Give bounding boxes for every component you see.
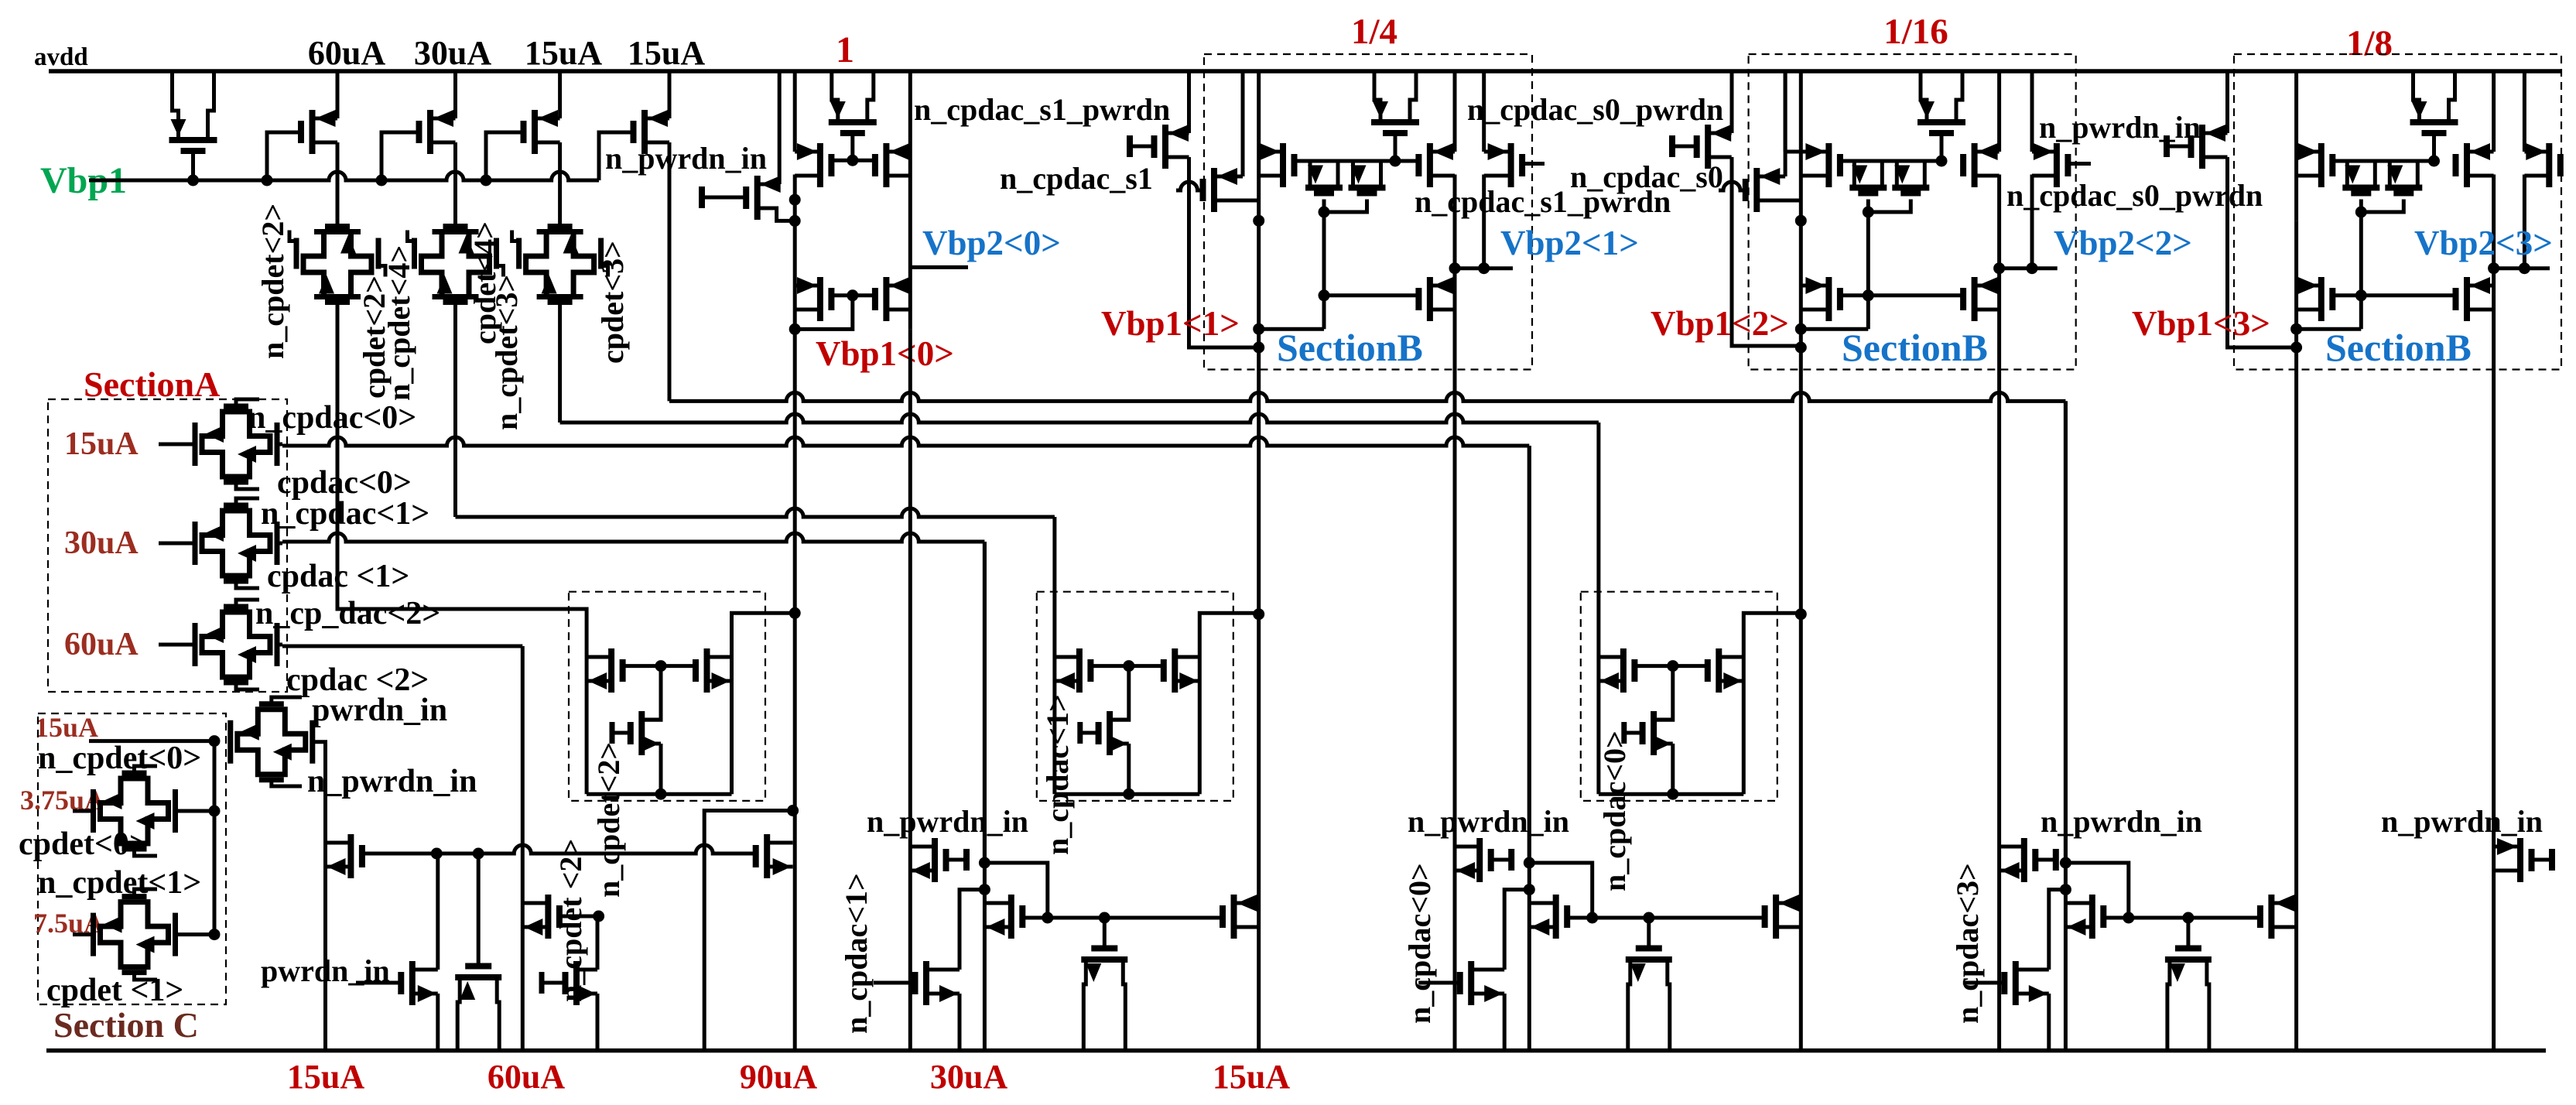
transistor 90uA P-right: [696, 648, 732, 693]
svg-text:avdd: avdd: [34, 43, 88, 71]
svg-text:Vbp1<3>: Vbp1<3>: [2132, 304, 2270, 343]
transistor pwrdn NMOS right: [2494, 838, 2552, 882]
transistor P_low 1/4: [1418, 277, 1455, 321]
junction lower gate 1/8: [2355, 289, 2367, 301]
wire s1 bottom out: [1214, 199, 1259, 203]
svg-text:n_cpdac<3>: n_cpdac<3>: [1950, 863, 1985, 1024]
wire rail drop 1/8 vb: [2294, 71, 2298, 221]
wire cpdac3 gate bus: [2129, 916, 2260, 920]
junction gate link sec1: [847, 155, 858, 166]
transistor n_cpdac_s0_pwrdn PMOS: [1672, 125, 1732, 169]
transistor pwrdn NMOS cpdac3: [2000, 838, 2056, 882]
transistor pwrdn NMOS cpdac0: [1455, 838, 1511, 882]
svg-text:Vbp1<0>: Vbp1<0>: [816, 334, 954, 373]
wire bus n_cpdac<0>: [282, 437, 1529, 446]
transistor M0 always-on PMOS: [169, 71, 217, 151]
transistor low NMOS cpdac0: [1460, 961, 1505, 1005]
wire pwrdn tgate out to 15uA branch: [313, 742, 326, 1051]
junction cpdac3 r1: [2060, 857, 2071, 869]
wire N2 drain: [436, 854, 440, 970]
junction 1/4 vb dot: [1253, 215, 1264, 227]
wire A3 to cp_dac<2>: [277, 643, 282, 647]
junction Vbp1 1/16 a: [1795, 323, 1807, 335]
svg-text:15uA: 15uA: [287, 1058, 364, 1096]
svg-text:n_cpdac_s1_pwrdn: n_cpdac_s1_pwrdn: [914, 92, 1170, 127]
wire A2 output: [277, 542, 282, 546]
transistor 90uA NMOS: [631, 711, 661, 755]
junction M7-M6 node: [789, 194, 801, 206]
wire rail drop 1027: [793, 71, 797, 152]
svg-text:15uA: 15uA: [64, 426, 139, 462]
wire 90uA branch upper: [793, 200, 797, 329]
wire bus cpdet<4> branch: [456, 508, 1055, 517]
wire twin gate down 1/4: [1322, 212, 1326, 329]
svg-text:60uA: 60uA: [64, 627, 139, 662]
wire Vbp2 stub 1/16: [2000, 266, 2058, 270]
wire gate row 1/8: [2332, 159, 2434, 163]
junction gate-Vbp1 M1: [262, 175, 273, 186]
transistor ratio twin2 1/4: [1349, 161, 1386, 193]
transistor ratio twin2 1/16: [1892, 161, 1929, 193]
svg-text:n_cpdac<0>: n_cpdac<0>: [1597, 730, 1632, 891]
transistor pwrdn NMOS 30uA: [910, 838, 966, 882]
transistor always-on 1/8: [2410, 71, 2458, 161]
svg-text:n_cpdac<1>: n_cpdac<1>: [1040, 694, 1075, 855]
wire 1/8 pwrdn drain: [2225, 71, 2229, 133]
wire s1pwrdn out: [1189, 157, 1259, 347]
wire 60uA source down: [336, 142, 340, 227]
wire 15uA-1 drain from rail: [558, 71, 562, 118]
wire Vbp1<0> branch upper: [908, 71, 912, 329]
transistor P_low 1/8: [2456, 277, 2494, 321]
transistor low NMOS cpdac3: [2004, 961, 2049, 1005]
wire Vbp1 rail: [89, 172, 599, 180]
tgate SectionA A3: [159, 600, 277, 689]
svg-text:n_cpdet<2>: n_cpdet<2>: [255, 204, 290, 359]
wire 1/8 pwrdn out: [2228, 157, 2297, 347]
ground return rail (bottom): [46, 1049, 2546, 1053]
svg-text:n_pwrdn_in: n_pwrdn_in: [605, 141, 767, 176]
tgate T1 cpdet<2>: [289, 227, 385, 303]
box SectionB 1/16: [1749, 54, 2076, 370]
svg-text:n_cpdac<0>: n_cpdac<0>: [1402, 863, 1437, 1024]
transistor N4 NMOS 60uA: [522, 895, 598, 939]
transistor out NMOS cpdac0: [1765, 895, 1801, 939]
wire Vbp1 branch 1/4: [1257, 221, 1261, 1050]
junction Vbp2 1/16 a: [1993, 262, 2005, 274]
svg-text:n_cpdet<3>: n_cpdet<3>: [489, 275, 524, 430]
transistor M8 PMOS pair-right: [875, 143, 910, 187]
svg-text:Vbp2<2>: Vbp2<2>: [2054, 224, 2192, 262]
svg-text:1: 1: [836, 29, 854, 70]
wire s0 gate lead: [1719, 182, 1746, 190]
wire 30uA nmos src: [1127, 744, 1131, 794]
wire bus1 down to n_cpdac3 cluster: [2064, 401, 2068, 863]
wire twin gates 1/16: [1868, 200, 1911, 213]
gate tie 30uA: [1080, 731, 1099, 735]
svg-text:n_cpdet<4>: n_cpdet<4>: [381, 245, 416, 401]
wire gate row 1/16: [1840, 159, 1941, 163]
transistor cascode NMOS cpdac0: [1529, 895, 1592, 939]
wire 90uA bottom: [587, 792, 731, 796]
junction 30uA gd: [1042, 912, 1053, 924]
wire bus cpdet<3> branch: [560, 414, 1599, 422]
transistor P_low2 1/16: [1801, 277, 1840, 321]
junction twin gate 1/16: [1863, 207, 1874, 218]
junction Vbp1 1/8 a: [2290, 323, 2302, 335]
wire rail drop 1007: [778, 71, 782, 184]
wire route vertical cpdac3: [2064, 401, 2068, 1050]
transistor cascode NMOS 30uA: [984, 895, 1047, 939]
svg-text:SectionB: SectionB: [2325, 326, 2472, 369]
tgate T2 cpdet<4>: [408, 227, 504, 303]
transistor N6 NMOS 90uA: [756, 834, 793, 878]
svg-text:15uA: 15uA: [628, 34, 705, 72]
junction 15uA gate: [1667, 660, 1678, 672]
wire cpdac0 low src: [1503, 994, 1507, 1051]
wire 15uA left leg: [1596, 657, 1600, 794]
wire 30uA bottom: [1055, 792, 1199, 796]
svg-text:n_cpdac<1>: n_cpdac<1>: [261, 496, 429, 532]
wire 30uA gates: [1090, 664, 1163, 668]
wire N2 src: [436, 994, 440, 1051]
wire 90uA side: [704, 811, 792, 1051]
tgate T3 cpdet<3>: [512, 227, 608, 303]
transistor P_c 1/4: [1418, 143, 1455, 187]
tgate C1 cpdet<0>: [73, 766, 214, 856]
svg-text:SectionB: SectionB: [1842, 326, 1988, 369]
junction 30uA r1: [979, 857, 990, 869]
wire 30uA gate bus: [1048, 916, 1223, 920]
wire 30uA feed: [1052, 517, 1056, 657]
transistor M10 PMOS lower-right: [875, 277, 910, 321]
svg-text:cpdet<0>: cpdet<0>: [19, 826, 148, 862]
wire rail drop 1/16 vcc: [1997, 71, 2001, 152]
wire 30uA source down: [453, 142, 457, 227]
wire A3 output: [277, 643, 282, 647]
wire lower gate 1/16: [1840, 293, 1963, 297]
transistor out NMOS cpdac3: [2260, 895, 2297, 939]
tgate SectionA A2: [159, 498, 277, 588]
transistor P_a 1/4: [1259, 143, 1295, 187]
wire s1pwrdn drain: [1187, 71, 1191, 133]
svg-text:n_pwrdn_in: n_pwrdn_in: [307, 764, 477, 799]
svg-text:n_cpdac_s0_pwrdn: n_cpdac_s0_pwrdn: [1467, 92, 1723, 127]
wire rail drop 1/16 va: [1784, 71, 1787, 152]
wire gate row 1/4: [1295, 159, 1419, 163]
wire 1/4 drain branch: [1453, 269, 1457, 1051]
transistor always-on 1/4: [1371, 71, 1419, 161]
svg-text:90uA: 90uA: [740, 1058, 817, 1096]
transistor N5 diode NMOS: [542, 961, 597, 1005]
junction twin gate 1/8: [2355, 207, 2367, 218]
transistor M2 30uA mirror PMOS: [381, 110, 456, 180]
wire rail drop 1/4 vb: [1257, 71, 1261, 221]
junction twin gate 1/4: [1319, 207, 1330, 218]
wire cpdet<3> to bus2: [558, 299, 562, 423]
transistor n_cpdac_s1 PMOS: [1203, 168, 1244, 212]
wire 1/4 vcc to Vbp2: [1453, 175, 1457, 269]
avdd power rail: [49, 69, 2561, 74]
transistor M4 15uA mirror PMOS: [599, 110, 669, 180]
svg-text:SectionB: SectionB: [1277, 326, 1423, 369]
box mirror 90uA: [569, 592, 765, 801]
tgate C2 cpdet<1>: [73, 889, 214, 980]
junction cpdac3 gd: [2123, 912, 2134, 924]
wire 90uA right leg: [730, 657, 734, 794]
svg-text:cpdet <1>: cpdet <1>: [46, 973, 183, 1008]
gate tie N5: [539, 972, 545, 994]
wire 90uA left leg: [585, 657, 589, 794]
wire rail drop 1/4 vcc: [1453, 71, 1457, 152]
svg-text:n_pwrdn_in: n_pwrdn_in: [2039, 110, 2201, 145]
wire 1/8 vd to Vbp2: [2523, 175, 2526, 269]
transistor ratio twin1 1/8: [2342, 161, 2379, 193]
junction Vbp2 1/16 b: [2027, 262, 2038, 274]
svg-text:n_cpdet<2>: n_cpdet<2>: [591, 742, 626, 898]
wire bus n_cpdac<1>: [282, 533, 984, 542]
svg-text:15uA: 15uA: [1213, 1058, 1290, 1096]
wire 30uA out: [1199, 613, 1258, 657]
svg-text:n_cp_dac<2>: n_cp_dac<2>: [255, 596, 440, 631]
junction lower gate link: [847, 289, 858, 301]
svg-text:Vbp1<2>: Vbp1<2>: [1651, 304, 1789, 343]
wire cp_dac<2> down: [521, 646, 525, 1051]
wire bus5 down to 30uA cluster: [983, 542, 987, 863]
wire 90uA out: [732, 613, 795, 657]
junction C2 out: [209, 929, 221, 940]
transistor n_cpdac_s1_pwrdn PMOS: [1130, 125, 1189, 169]
wire route vertical cpdac0: [1527, 446, 1531, 1051]
wire Vbp2 stub 1/4: [1455, 266, 1513, 270]
tgate pwrdn_in: [231, 697, 313, 786]
wire 90uA nmos src: [659, 744, 663, 794]
wire 15uA right leg: [1742, 657, 1746, 794]
transistor P_d 1/4: [1484, 143, 1522, 187]
junction 30uA box out: [1253, 608, 1264, 620]
wire s0pwrdn out: [1732, 157, 1801, 346]
transistor out NMOS 30uA: [1223, 895, 1259, 939]
gate tie 15uA: [1624, 731, 1643, 735]
box mirror 15uA: [1581, 592, 1777, 801]
junction gate bus b: [473, 848, 484, 860]
transistor P_low2 1/8: [2297, 277, 2333, 321]
junction N4-N5 gate: [593, 911, 604, 922]
junction gate-Vbp1 M3: [481, 175, 492, 186]
wire 1/16 vd to Vbp2: [2030, 175, 2034, 269]
transistor P_a 1/8: [2297, 143, 2333, 187]
wire 30uA right leg: [1198, 657, 1202, 794]
junction Vbp2 1/4 a: [1449, 262, 1461, 274]
wire Vbp1 branch 1/16: [1799, 221, 1803, 1050]
wire s1 gate lead: [1176, 182, 1203, 190]
wire lower gate 1/4: [1324, 293, 1418, 297]
svg-text:30uA: 30uA: [414, 34, 491, 72]
junction Vbp2 1/8 a: [2488, 262, 2499, 274]
junction C1 out: [209, 806, 221, 817]
wire rail drop 1/8 vcc: [2492, 71, 2496, 152]
wire 60uA drain from rail: [336, 71, 340, 118]
transistor vnmos cpdac3: [2165, 918, 2212, 1051]
junction Vbp2 1/8 b: [2519, 262, 2530, 274]
wire s1_pwrdn gate stub: [1522, 162, 1545, 166]
junction M0-Vbp1: [187, 175, 199, 186]
box Section C: [38, 713, 226, 1004]
wire N5 drain up: [597, 916, 599, 970]
transistor 15uA P-right: [1708, 648, 1744, 693]
junction 90uA gate: [655, 660, 667, 672]
junction Vbp1<0> tie: [789, 323, 801, 335]
transistor ratio twin1 1/16: [1849, 161, 1887, 193]
wire M0 gate to Vbp1: [191, 151, 195, 180]
wire cpdet<2> to 90uA box feed: [337, 299, 587, 658]
tgate SectionA A1: [159, 399, 277, 489]
svg-text:n_cpdac_s0_pwrdn: n_cpdac_s0_pwrdn: [2006, 178, 2263, 213]
wire cpdac0 low feed: [1504, 890, 1529, 970]
svg-text:n_cpdac<1>: n_cpdac<1>: [839, 873, 874, 1034]
transistor M5 always-on PMOS sec1: [829, 71, 877, 160]
wire bus3 down to n_cpdac0 cluster: [1527, 446, 1531, 863]
wire 1/16 drain branch: [1997, 269, 2001, 1051]
svg-text:n_cpdac<0>: n_cpdac<0>: [248, 400, 416, 436]
wire 90uA gates: [623, 664, 696, 668]
transistor M3 15uA mirror PMOS: [486, 110, 560, 180]
wire Vbp1<0> bus: [908, 329, 912, 1050]
transistor 30uA P-left: [1055, 648, 1091, 693]
wire s0 bottom out: [1757, 199, 1801, 203]
wire twin gate down 1/16: [1866, 212, 1870, 329]
wire twin gates 1/8: [2361, 200, 2403, 213]
junction cpdac0 gd2: [1643, 912, 1654, 924]
wire s0 top feed: [1784, 71, 1787, 176]
wire cpdac3 route: [2065, 863, 2128, 918]
junction cpdac3 gd2: [2182, 912, 2194, 924]
wire 15uA nmos src: [1671, 744, 1675, 794]
junction gate bus a: [431, 848, 443, 860]
svg-text:1/8: 1/8: [2346, 23, 2393, 63]
svg-text:30uA: 30uA: [930, 1058, 1007, 1096]
svg-text:pwrdn_in: pwrdn_in: [261, 953, 390, 988]
wire cpdac0 route: [1529, 863, 1592, 918]
transistor N3 vertical NMOS: [455, 854, 501, 1051]
transistor 30uA P-right: [1164, 648, 1200, 693]
wire 15uA-2 drain from rail: [668, 71, 672, 118]
svg-text:pwrdn_in: pwrdn_in: [312, 693, 447, 728]
junction 1/16 vb dot: [1795, 215, 1807, 227]
svg-text:1/4: 1/4: [1351, 12, 1397, 52]
transistor n_cpdac_s0 PMOS: [1746, 168, 1785, 212]
wire 90uA nmos top: [641, 718, 661, 722]
wire M9-M10 gate link: [832, 293, 875, 297]
wire twin gates 1/4: [1324, 200, 1367, 213]
transistor N1 pwrdn_in NMOS: [326, 834, 362, 878]
svg-text:Vbp2<3>: Vbp2<3>: [2414, 224, 2553, 262]
wire N5 src: [596, 994, 600, 1051]
wire Vbp1 tie 1/8: [2297, 327, 2362, 331]
wire gate bus n_pwrdn: [362, 845, 758, 854]
svg-text:15uA: 15uA: [35, 712, 98, 743]
wire 15uA gates: [1634, 664, 1707, 668]
svg-text:n_cpdac_s0: n_cpdac_s0: [1570, 159, 1723, 194]
transistor P_d 1/16: [2032, 143, 2068, 187]
transistor P_a 1/16: [1785, 143, 1840, 187]
box SectionB 1/4: [1204, 54, 1532, 370]
junction Vbp1 1/16 b: [1795, 342, 1807, 354]
junction pwrdn-in vertical: [209, 735, 221, 747]
svg-text:15uA: 15uA: [525, 34, 602, 72]
transistor M6 n_pwrdn_in PMOS: [702, 176, 781, 220]
junction cpdac3 r2: [2060, 884, 2071, 895]
wire 30uA nmos top: [1110, 718, 1129, 722]
wire M7 drain down: [793, 175, 797, 200]
transistor ratio twin2 1/8: [2385, 161, 2422, 193]
svg-text:n_cpdet<1>: n_cpdet<1>: [38, 865, 201, 901]
junction lower gate 1/4: [1319, 289, 1330, 301]
svg-text:SectionA: SectionA: [84, 364, 220, 404]
svg-text:60uA: 60uA: [308, 34, 385, 72]
svg-text:n_pwrdn_in: n_pwrdn_in: [867, 804, 1028, 839]
junction 90uA bottom: [655, 789, 667, 800]
junction Vbp1 1/8 b: [2290, 342, 2302, 354]
transistor 15uA P-left: [1599, 648, 1635, 693]
transistor vnmos cpdac0: [1626, 918, 1672, 1051]
junction 90uA box out: [789, 607, 801, 619]
wire cpdac3 low feed: [2049, 890, 2066, 970]
junction 15uA box out: [1795, 608, 1807, 620]
wire lower gate 1/8: [2332, 293, 2455, 297]
wire rail drop 1/16 vb: [1799, 71, 1803, 221]
svg-text:n_pwrdn_in: n_pwrdn_in: [1408, 804, 1569, 839]
junction 90uA top: [787, 805, 799, 816]
wire cpdac3 low src: [2047, 994, 2051, 1051]
svg-text:Section C: Section C: [53, 1005, 199, 1045]
junction gate-Vbp1 M2: [376, 175, 388, 186]
junction aon gate 1/8: [2428, 156, 2440, 167]
wire A1 output: [277, 443, 282, 446]
junction aon gate 1/4: [1390, 156, 1401, 167]
svg-text:Vbp2<0>: Vbp2<0>: [922, 224, 1061, 262]
wire Vbp1 tie 1/4: [1259, 327, 1324, 331]
wire 30uA route: [984, 863, 1047, 918]
wire 15uA gate down: [1654, 666, 1673, 720]
wire rail drop 1/8 vd: [2523, 71, 2526, 152]
wire 30uA gate down: [1110, 666, 1129, 720]
wire 15uA bottom: [1599, 792, 1743, 796]
wire cp_dac<2> net: [282, 645, 522, 648]
transistor M7 PMOS pair-left: [795, 143, 831, 187]
wire cpdac0 gate bus: [1592, 916, 1765, 920]
junction Vbp1 1/4 a: [1253, 323, 1264, 335]
wire rail drop 1/16 vd: [2030, 71, 2034, 152]
wire 30uA low gate: [874, 981, 915, 985]
wire Vbp2<0> stub: [910, 265, 968, 269]
wire twin gate down 1/8: [2359, 212, 2363, 329]
box SectionA: [48, 399, 287, 692]
wire 15uA-1 source down: [558, 142, 562, 227]
wire Vbp2 stub 1/8: [2494, 266, 2550, 270]
wire lower gate to drain: [795, 296, 853, 330]
gate tie 90uA: [612, 731, 631, 735]
transistor P_c 1/8: [2456, 143, 2494, 187]
svg-text:n_pwrdn_in: n_pwrdn_in: [2381, 804, 2543, 839]
wire 1/8 vcc to Vbp2: [2492, 175, 2496, 269]
wire rail drop 1/4 vd: [1482, 71, 1486, 152]
svg-text:cpdet<3>: cpdet<3>: [595, 241, 630, 364]
wire 30uA low feed: [960, 890, 984, 970]
junction Vbp2 1/4 b: [1478, 262, 1490, 274]
svg-text:60uA: 60uA: [487, 1058, 565, 1096]
svg-text:30uA: 30uA: [64, 525, 139, 561]
